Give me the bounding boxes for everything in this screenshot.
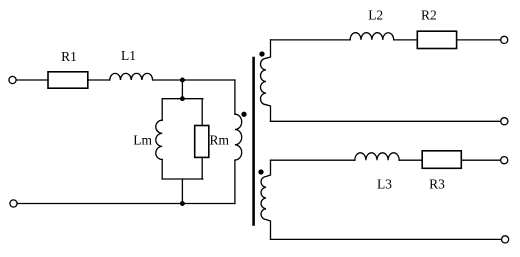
- resistor R2: [417, 31, 456, 48]
- svg-text:Rm: Rm: [209, 133, 229, 148]
- resistor Rm: [195, 126, 209, 158]
- wire Lm branch upper: [161, 99, 163, 121]
- transformer secondary1 winding: [261, 40, 271, 121]
- wire shunt bottom rail: [162, 178, 203, 180]
- inductor Lm: [156, 120, 162, 159]
- terminal T1 (top-left input): [9, 76, 16, 83]
- wire secondary1 bottom: [271, 120, 501, 122]
- svg-text:Lm: Lm: [133, 132, 152, 147]
- terminal T2 (bottom-left input): [10, 200, 17, 207]
- wire T1 to R1: [16, 79, 48, 81]
- terminal T4 (secondary1 -): [501, 118, 508, 125]
- wire Rm branch upper: [201, 99, 203, 126]
- node junction dot bottom line: [181, 202, 185, 206]
- wire secondary2 top: [271, 159, 355, 161]
- wire Lm branch lower: [161, 160, 163, 180]
- transformer core: [252, 58, 255, 224]
- wire secondary2 bottom: [271, 238, 502, 240]
- wire junction down to shunt block: [181, 80, 183, 99]
- resistor R1: [48, 72, 88, 88]
- wire shunt to bottom line: [181, 179, 183, 204]
- wire L3 to R3: [399, 159, 422, 161]
- node junction dot top rail: [181, 78, 185, 82]
- terminal T3 (secondary1 +): [501, 36, 508, 43]
- transformer primary winding: [235, 114, 242, 160]
- inductor L2: [350, 33, 394, 40]
- wire shunt top rail: [162, 98, 203, 100]
- wire primary top vertical: [234, 80, 236, 114]
- terminal T6 (secondary2 -): [502, 236, 509, 243]
- polarity dot primary: [242, 112, 246, 116]
- inductor L1: [110, 73, 153, 80]
- wire primary bottom vertical: [234, 160, 236, 203]
- wire R2 to T3: [457, 39, 501, 41]
- svg-text:L1: L1: [121, 48, 136, 63]
- polarity dot secondary1: [260, 52, 264, 56]
- wire Rm branch lower: [201, 157, 203, 179]
- svg-text:R2: R2: [421, 7, 437, 22]
- wire L2 to R2: [394, 39, 418, 41]
- wire bottom line: [17, 203, 235, 205]
- node junction dot shunt top: [181, 97, 185, 101]
- inductor L3: [355, 153, 399, 160]
- svg-text:R3: R3: [429, 177, 445, 192]
- wire R3 to T5: [461, 159, 500, 161]
- svg-text:R1: R1: [61, 49, 77, 64]
- wire R1 to L1: [88, 79, 110, 81]
- polarity dot secondary2: [259, 170, 263, 174]
- svg-text:L2: L2: [368, 8, 383, 23]
- wire secondary1 top: [271, 39, 351, 41]
- svg-text:L3: L3: [377, 177, 392, 192]
- wire L1 to primary corner: [153, 79, 235, 81]
- terminal T5 (secondary2 +): [501, 157, 508, 164]
- transformer secondary2 winding: [261, 160, 270, 239]
- resistor R3: [422, 151, 461, 169]
